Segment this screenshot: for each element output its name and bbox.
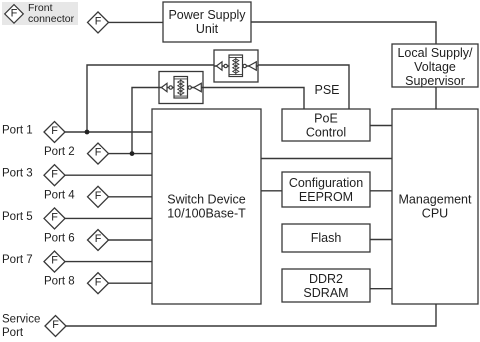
wire Port 7 [65, 261, 152, 263]
diamond Port 7 [44, 251, 65, 272]
box Switch Device 10/100Base-T [152, 109, 261, 304]
svg-text:Supervisor: Supervisor [405, 74, 465, 88]
svg-text:CPU: CPU [422, 207, 448, 221]
wire Flash to Management CPU [370, 239, 392, 241]
svg-text:Voltage: Voltage [414, 60, 456, 74]
wire Port 2 [109, 153, 153, 155]
magnetics module T2 (lower) [159, 72, 203, 104]
diamond Port 3 [44, 165, 65, 186]
svg-text:Switch Device: Switch Device [167, 193, 246, 207]
svg-text:F: F [11, 7, 18, 19]
svg-text:Service: Service [2, 314, 40, 326]
svg-text:F: F [95, 276, 102, 288]
svg-text:Control: Control [306, 126, 346, 140]
box DDR2 SDRAM [282, 269, 370, 302]
diamond Port 2 [88, 143, 109, 164]
legend diamond F [5, 5, 24, 24]
wire Port 1 junction up to magnetics T1 left [87, 65, 214, 132]
wire Port 4 [109, 196, 153, 198]
box texts [167, 8, 473, 300]
svg-text:SDRAM: SDRAM [303, 286, 348, 300]
svg-text:Flash: Flash [311, 231, 342, 245]
svg-text:F: F [52, 319, 59, 331]
svg-text:F: F [95, 147, 102, 159]
svg-text:Port 3: Port 3 [2, 168, 33, 180]
wire Service Port to Management CPU [66, 304, 436, 326]
magnetics module T1 (upper) [214, 50, 258, 82]
wire Port 2 junction up to magnetics T2 left [132, 88, 159, 154]
diamond Port 8 [88, 273, 109, 294]
wire PoE Control to Management CPU [370, 125, 392, 127]
svg-text:Configuration: Configuration [289, 176, 363, 190]
svg-text:Port 4: Port 4 [44, 189, 75, 201]
svg-text:DDR2: DDR2 [309, 272, 343, 286]
junction dot Port 1 [85, 130, 90, 135]
svg-text:Local Supply/: Local Supply/ [397, 46, 473, 60]
junction dot Port 2 [130, 151, 135, 156]
wire Power Supply Unit to Local Supply/Voltage Supervisor [251, 22, 436, 44]
box Configuration EEPROM [282, 172, 370, 207]
svg-text:Port: Port [2, 327, 24, 339]
wire Port 5 [65, 217, 152, 219]
svg-text:10/100Base-T: 10/100Base-T [167, 207, 246, 221]
svg-text:F: F [95, 233, 102, 245]
box Flash [282, 224, 370, 252]
svg-text:F: F [95, 190, 102, 202]
svg-text:PSE: PSE [314, 83, 339, 97]
port labels [2, 125, 75, 340]
wire Port 6 [109, 239, 153, 241]
diamond Port 6 [88, 230, 109, 251]
svg-text:F: F [51, 168, 58, 180]
box Management CPU [392, 109, 478, 304]
wire Switch Device to Management CPU [261, 158, 392, 160]
wire F to Power Supply Unit [109, 21, 164, 23]
diamond Port 4 [88, 186, 109, 207]
wire Switch Device to Configuration EEPROM [261, 190, 282, 192]
box Power Supply Unit [163, 2, 251, 42]
svg-text:Unit: Unit [196, 22, 219, 36]
diamond Port 1 [44, 122, 65, 143]
box PoE Control [282, 109, 370, 141]
svg-text:Port 6: Port 6 [44, 233, 75, 245]
box Local Supply / Voltage Supervisor [392, 44, 478, 87]
connector diamond F (power supply input) [88, 12, 109, 33]
wire DDR2 SDRAM to Management CPU [370, 288, 392, 290]
wire magnetics T2 right to PoE Control top [203, 88, 304, 110]
wire Local Supply to Management CPU [435, 87, 437, 109]
svg-text:Port 7: Port 7 [2, 254, 33, 266]
svg-text:F: F [51, 212, 58, 224]
svg-text:Port 5: Port 5 [2, 211, 33, 223]
wire Configuration EEPROM to Management CPU [370, 190, 392, 192]
legend box Front connector [2, 2, 78, 25]
svg-text:F: F [51, 125, 58, 137]
wire Port 1 [65, 131, 152, 133]
svg-text:Port 8: Port 8 [44, 276, 75, 288]
svg-text:F: F [95, 16, 102, 28]
svg-text:PoE: PoE [314, 112, 338, 126]
svg-text:Power Supply: Power Supply [168, 8, 246, 22]
svg-text:connector: connector [28, 13, 75, 25]
wire Port 8 [109, 282, 153, 284]
svg-text:Port 1: Port 1 [2, 125, 33, 137]
svg-text:EEPROM: EEPROM [299, 190, 353, 204]
wire Port 3 [65, 174, 152, 176]
svg-text:Management: Management [399, 193, 472, 207]
wire magnetics T1 right to PoE Control top [258, 65, 349, 109]
svg-text:F: F [51, 255, 58, 267]
port connector diamonds [44, 122, 109, 337]
svg-text:Port 2: Port 2 [44, 146, 75, 158]
diamond Port 5 [44, 208, 65, 229]
diamond Service Port [45, 316, 66, 337]
